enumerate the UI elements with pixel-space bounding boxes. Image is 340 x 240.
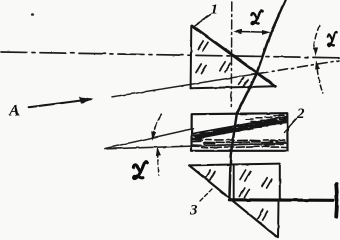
bottom gamma dashed arc lower part w/ up arrow <box>157 153 159 176</box>
gamma angle arrow (top), double headed <box>236 31 266 34</box>
deflected axis (dash-dot continuation of ray A) <box>258 61 339 74</box>
svg-text:3: 3 <box>189 203 198 219</box>
vertical dash-dot reference line <box>230 2 233 108</box>
leader for 1 <box>194 15 211 27</box>
square right edge <box>279 164 281 199</box>
prism 3 right edge below exit ray <box>277 201 280 238</box>
exit ray to the right (thick) <box>229 198 333 202</box>
optical axis (horizontal dash-dot centerline) <box>1 52 339 58</box>
wedge liquid hatching <box>193 137 202 140</box>
stray dot <box>31 13 34 16</box>
bottom gamma dashed arc upper part w/ down arrow <box>153 114 162 135</box>
gamma label (bottom) <box>133 162 147 178</box>
screen T-bar <box>334 184 339 217</box>
prism 1 hypotenuse (thick) <box>192 26 275 87</box>
fan line L1 (horizontal-ish) <box>105 143 287 149</box>
incident ray A line (solid part) <box>112 74 258 97</box>
fan line L2 (interface direction) <box>105 129 193 149</box>
right gamma dashed arc, upper part w/ down arrow <box>314 26 320 48</box>
arrow A <box>29 99 91 107</box>
wedge interface lower line <box>192 122 287 140</box>
dashed leader for 3 <box>200 189 213 202</box>
prism 3 hypotenuse <box>189 165 277 237</box>
square left edge <box>233 164 235 199</box>
svg-text:1: 1 <box>211 2 219 18</box>
glass hatch marks square prism <box>240 170 272 198</box>
steep incoming ray (thick) <box>237 0 285 113</box>
prism 2 rectangle <box>192 113 288 151</box>
vertical ray down through prisms (thick) <box>229 113 237 200</box>
leader for 2 <box>285 119 297 133</box>
glass hatch marks prism 3 <box>205 170 267 220</box>
prism below: square top edge <box>189 164 280 166</box>
gamma label (right) <box>328 32 337 46</box>
gamma label (top) <box>252 11 263 24</box>
svg-text:A: A <box>8 101 20 120</box>
wedge interface upper line <box>192 117 287 134</box>
prism 1 bottom edge <box>191 86 276 88</box>
svg-text:2: 2 <box>296 106 305 122</box>
glass hatch marks prism 1 <box>196 41 248 86</box>
prism 1 triangle : left edge <box>190 26 193 89</box>
right gamma dashed arc, lower part w/ up arrow <box>317 70 323 94</box>
